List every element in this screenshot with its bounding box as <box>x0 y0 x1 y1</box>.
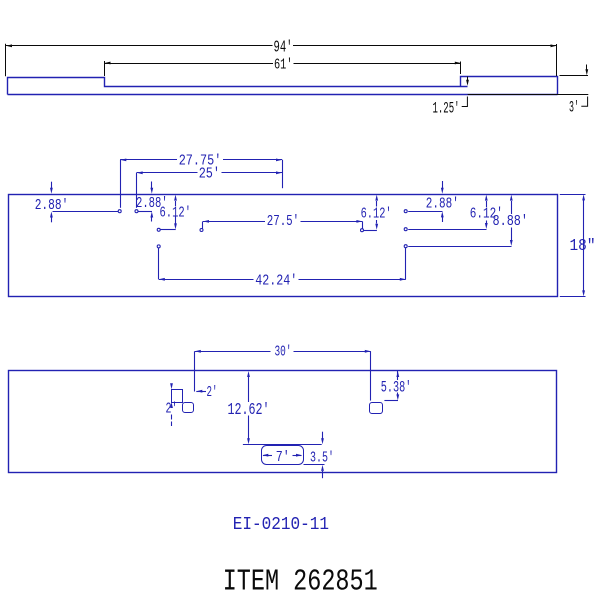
svg-text:94′: 94′ <box>274 38 293 57</box>
svg-text:6.12′: 6.12′ <box>160 203 192 221</box>
svg-text:30′: 30′ <box>275 343 292 361</box>
svg-text:7′: 7′ <box>276 448 290 466</box>
svg-text:2.88′: 2.88′ <box>426 196 459 212</box>
svg-text:8.88′: 8.88′ <box>493 214 529 230</box>
svg-text:1.25′: 1.25′ <box>433 100 460 118</box>
svg-text:3.5′: 3.5′ <box>310 449 334 467</box>
svg-text:EI-0210-11: EI-0210-11 <box>233 513 329 535</box>
svg-text:12.62′: 12.62′ <box>228 400 270 419</box>
svg-text:61′: 61′ <box>274 56 293 74</box>
svg-text:42.24′: 42.24′ <box>255 272 297 290</box>
svg-text:27.5′: 27.5′ <box>267 212 300 230</box>
svg-text:2.88′: 2.88′ <box>35 198 69 214</box>
svg-text:3′: 3′ <box>569 99 579 117</box>
svg-text:6.12′: 6.12′ <box>361 205 392 223</box>
svg-text:2′: 2′ <box>166 400 178 418</box>
svg-text:25′: 25′ <box>199 164 220 182</box>
svg-text:2′: 2′ <box>207 383 218 401</box>
svg-text:ITEM 262851: ITEM 262851 <box>223 565 378 600</box>
svg-text:18″: 18″ <box>570 236 596 255</box>
svg-text:5.38′: 5.38′ <box>381 378 412 396</box>
